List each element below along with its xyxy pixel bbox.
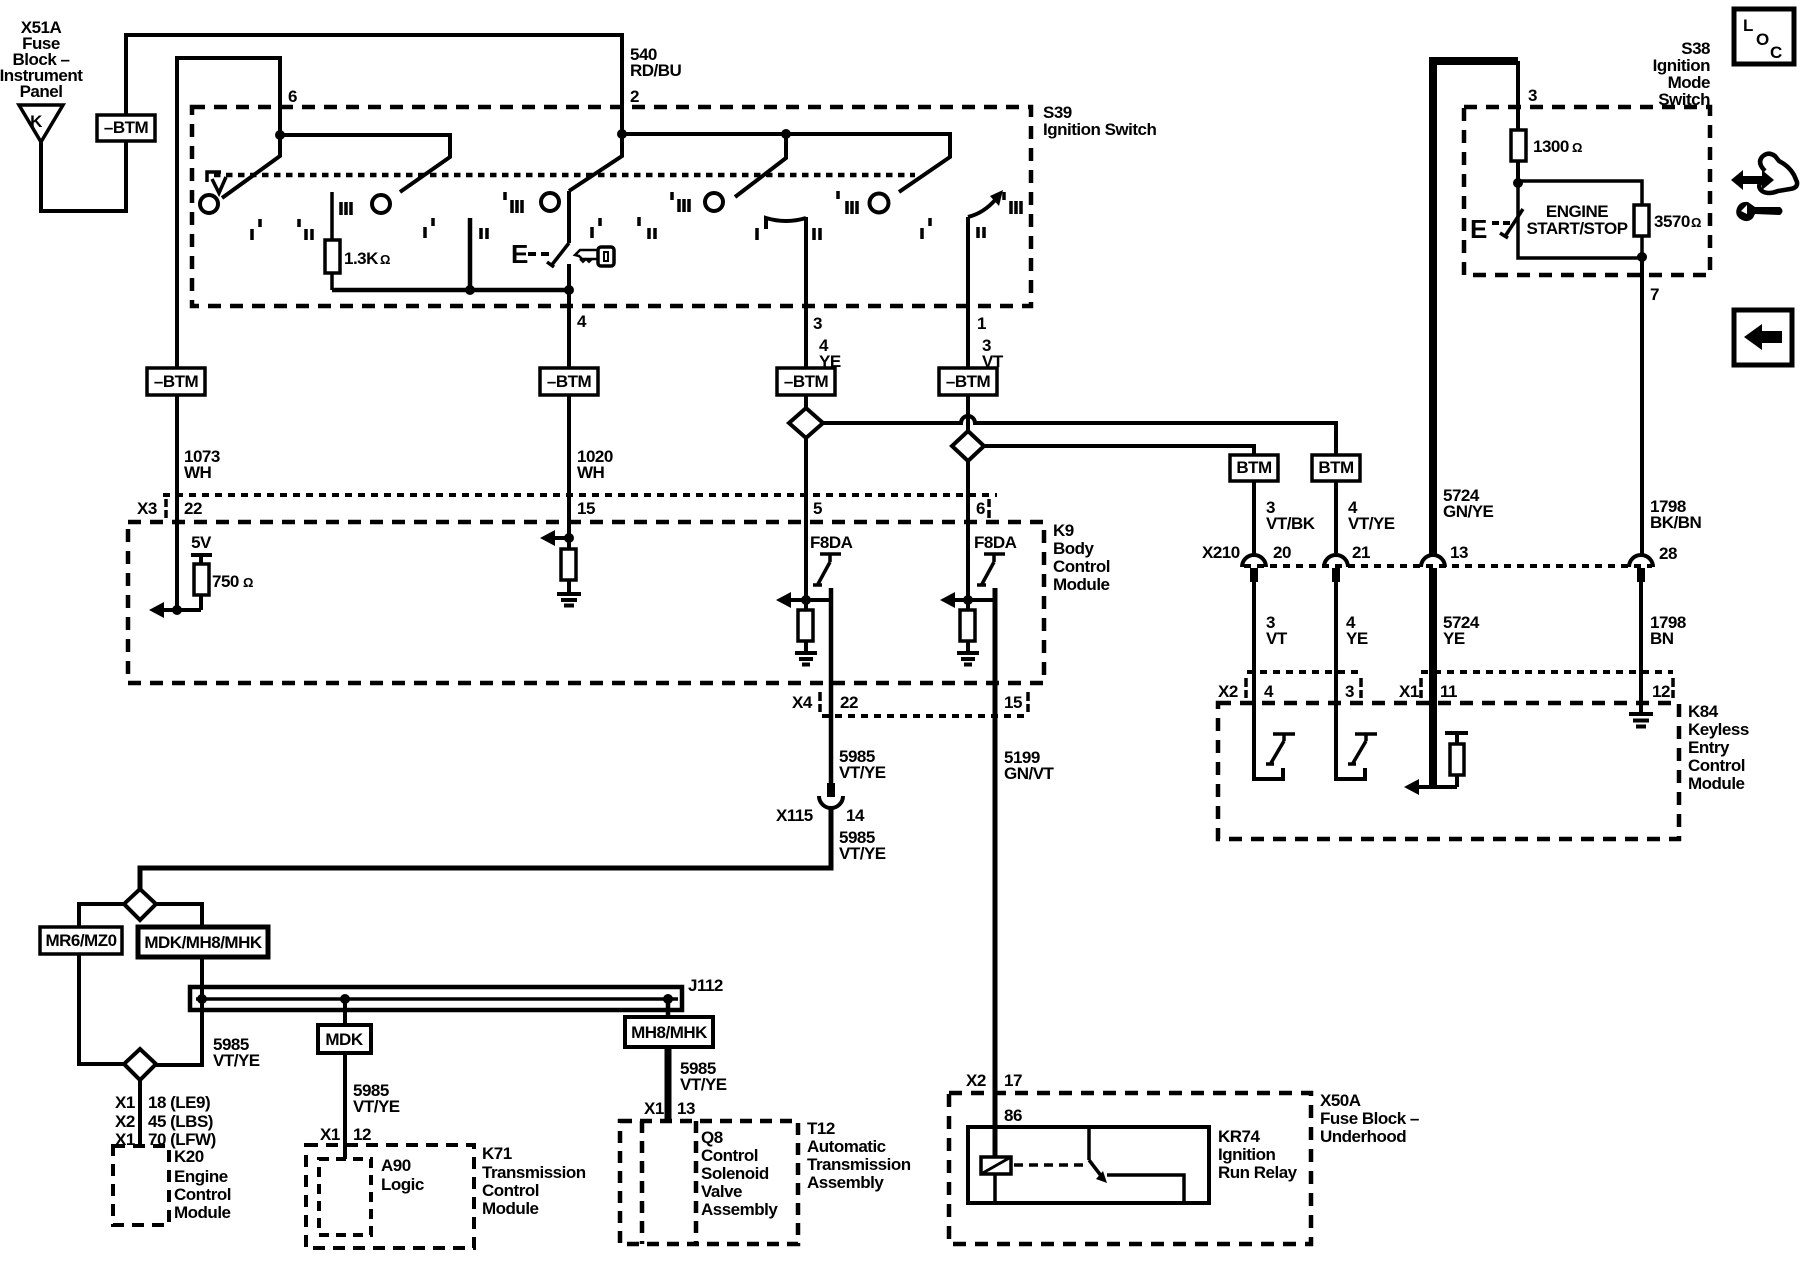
wire 5724 GN/YE trunk — [1433, 61, 1518, 556]
svg-text:A90: A90 — [381, 1156, 411, 1175]
svg-text:KR74: KR74 — [1218, 1127, 1261, 1146]
logic block A90 box — [319, 1159, 371, 1235]
wire label 5985 VT/YE left — [213, 1035, 260, 1070]
relay coil — [981, 1157, 1011, 1174]
wire label 540 RD/BU pin 2 — [630, 45, 682, 106]
svg-text:–BTM: –BTM — [104, 118, 149, 137]
svg-text:6: 6 — [288, 87, 297, 106]
svg-text:Fuse Block –: Fuse Block – — [1320, 1109, 1419, 1128]
option box MDK — [318, 1025, 371, 1053]
label T12 Automatic Transmission Assembly — [807, 1119, 911, 1192]
svg-text:Underhood: Underhood — [1320, 1127, 1406, 1146]
wire pin5 internal arrow — [790, 598, 831, 602]
option box MDK/MH8/MHK — [138, 927, 268, 957]
svg-text:15: 15 — [577, 499, 595, 518]
wire MDK tap — [343, 999, 347, 1025]
relay switch contact wire — [1107, 1175, 1184, 1203]
svg-text:X210: X210 — [1202, 543, 1240, 562]
svg-text:X2: X2 — [966, 1071, 986, 1090]
svg-text:VT/YE: VT/YE — [680, 1075, 727, 1094]
svg-text:X4: X4 — [792, 693, 813, 712]
label X4 pins 22 15 — [792, 693, 1022, 712]
svg-text:Ω: Ω — [243, 575, 253, 590]
svg-text:12: 12 — [1652, 682, 1670, 701]
svg-text:T12: T12 — [807, 1119, 835, 1138]
svg-text:Valve: Valve — [701, 1182, 742, 1201]
resistor 3570 ohm — [1634, 205, 1649, 236]
svg-text:Ignition Switch: Ignition Switch — [1043, 120, 1156, 139]
wire label 5199 GN/VT — [1004, 748, 1055, 783]
wire pin15 internal with signal arrow — [554, 495, 569, 549]
resistor pin6 pulldown — [966, 600, 970, 610]
svg-text:VT/YE: VT/YE — [353, 1097, 400, 1116]
svg-text:Module: Module — [174, 1203, 231, 1222]
svg-text:3: 3 — [1345, 682, 1354, 701]
svg-text:MDK: MDK — [325, 1030, 363, 1049]
svg-text:YE: YE — [1346, 629, 1368, 648]
svg-text:X2: X2 — [115, 1112, 135, 1131]
wire blade pole4 — [735, 134, 786, 197]
wire bottom bus 1.3K to output — [332, 288, 569, 293]
svg-text:Control: Control — [1688, 756, 1745, 775]
svg-text:E: E — [1470, 214, 1487, 244]
svg-text:45 (LBS): 45 (LBS) — [148, 1112, 213, 1131]
node junction riser bus — [465, 285, 475, 295]
contact circle pole5 — [870, 194, 889, 213]
svg-text:K84: K84 — [1688, 702, 1719, 721]
ignition mode switch S38 box — [1464, 107, 1710, 275]
position marks pole3 III — [505, 192, 522, 213]
icon back arrow box — [1734, 310, 1792, 365]
svg-text:E: E — [511, 239, 528, 269]
wire label 5985 VT/YE above X115 — [839, 747, 886, 782]
wire 1798 BN — [1639, 582, 1643, 672]
svg-text:–BTM: –BTM — [946, 372, 991, 391]
svg-text:–BTM: –BTM — [154, 372, 199, 391]
svg-text:MR6/MZ0: MR6/MZ0 — [45, 931, 116, 950]
key switch E in S38 — [1470, 209, 1523, 244]
svg-text:Body: Body — [1053, 539, 1095, 558]
node junction output bus — [564, 285, 574, 295]
keyless entry control module K84 box — [1218, 703, 1679, 839]
wire 4 YE — [1334, 582, 1338, 672]
internal 5V pullup on pin 22 — [191, 533, 212, 564]
wire pin1 to diamond splice 2 — [966, 395, 970, 431]
wire MH8/MHK to Q8 — [665, 1047, 672, 1121]
svg-text:X115: X115 — [776, 806, 813, 825]
wire hat feed pole1 pin6 — [177, 58, 280, 368]
relay linkage dashed — [1014, 1163, 1086, 1167]
position marks start pole — [922, 192, 1021, 239]
fuse box -BTM (left) — [97, 115, 155, 141]
svg-text:22: 22 — [184, 499, 202, 518]
svg-text:VT/YE: VT/YE — [839, 844, 886, 863]
svg-text:22: 22 — [840, 693, 858, 712]
connector X115 inline — [776, 783, 865, 825]
wire pin3 to diamond splice — [804, 395, 808, 409]
wire from X51A to S39 pin 2 top run — [41, 35, 622, 211]
key switch blade — [547, 243, 569, 267]
svg-text:Control: Control — [482, 1181, 539, 1200]
icon data link hand — [1731, 154, 1797, 221]
svg-text:–BTM: –BTM — [784, 372, 829, 391]
svg-text:1.3K: 1.3K — [344, 249, 379, 268]
svg-text:X1: X1 — [644, 1099, 664, 1118]
wire MH8/MHK tap — [666, 999, 671, 1017]
splice diamond 1 — [789, 408, 823, 438]
body control module K9 box — [128, 522, 1044, 683]
svg-text:Transmission: Transmission — [482, 1163, 586, 1182]
wire diamond1 down to K9 pin 5 — [804, 438, 808, 600]
position marks pole4 — [592, 192, 689, 239]
node junction pin6 bus — [275, 130, 285, 140]
node junction pin2 — [617, 129, 627, 139]
svg-text:GN/VT: GN/VT — [1004, 764, 1055, 783]
wire 1798 BK/BN from S38 pin7 — [1640, 258, 1644, 556]
svg-text:X3: X3 — [137, 499, 157, 518]
svg-text:28: 28 — [1659, 544, 1677, 563]
resistor 1.3K leg wire — [330, 192, 334, 290]
wire 5724 YE — [1429, 582, 1437, 672]
wire contact II riser pole3 — [468, 218, 473, 290]
svg-text:Automatic: Automatic — [807, 1137, 886, 1156]
label X51A Fuse Block - Instrument Panel — [0, 18, 83, 101]
svg-text:Assembly: Assembly — [807, 1173, 884, 1192]
labels X2 4 3 X1 11 12 — [1218, 682, 1670, 701]
svg-text:K71: K71 — [482, 1144, 512, 1163]
relay KR74 box — [968, 1127, 1209, 1203]
svg-text:Control: Control — [174, 1185, 231, 1204]
svg-text:2: 2 — [630, 87, 639, 106]
svg-text:F8DA: F8DA — [810, 533, 853, 552]
svg-text:Q8: Q8 — [701, 1128, 723, 1147]
svg-text:X1: X1 — [320, 1125, 340, 1144]
wire 1020 WH — [567, 395, 571, 495]
fuse box -BTM 1 — [147, 368, 205, 395]
key icon — [575, 247, 614, 266]
node junction bus pole4 — [781, 129, 791, 139]
wire diamond2 branch to BTM right 1 — [984, 446, 1254, 455]
svg-text:5: 5 — [813, 499, 822, 518]
fuse box BTM right 1 — [1230, 455, 1278, 481]
icon LOC box — [1734, 9, 1794, 64]
wire 3 VT — [1252, 582, 1256, 672]
svg-text:Ω: Ω — [380, 252, 390, 267]
svg-text:Control: Control — [1053, 557, 1110, 576]
svg-text:VT/YE: VT/YE — [1348, 514, 1395, 533]
wire 5985 run to lower left — [140, 808, 831, 889]
wire key pole common — [567, 191, 571, 243]
svg-text:BTM: BTM — [1236, 458, 1272, 477]
ground internal pin5 — [795, 641, 817, 665]
svg-text:VT/BK: VT/BK — [1266, 514, 1316, 533]
connector arc pin 20 — [1242, 555, 1266, 567]
connector X2 X1 dotted line K84 — [1247, 670, 1673, 674]
fuse box BTM right 2 — [1312, 455, 1360, 481]
wire start pole output to pin 1 — [966, 217, 970, 368]
label A90 Logic — [381, 1156, 424, 1194]
connector X210 dotted line — [1244, 564, 1652, 568]
splice diamond 2 — [952, 431, 984, 461]
label X3 and pins 22 15 5 6 — [137, 499, 985, 518]
svg-text:86: 86 — [1004, 1106, 1022, 1125]
svg-text:F8DA: F8DA — [974, 533, 1017, 552]
svg-text:13: 13 — [1450, 543, 1468, 562]
svg-text:BK/BN: BK/BN — [1650, 513, 1702, 532]
connector X4 dotted line — [822, 714, 1030, 718]
svg-text:Entry: Entry — [1688, 738, 1730, 757]
svg-text:Solenoid: Solenoid — [701, 1164, 769, 1183]
svg-text:3: 3 — [1528, 86, 1537, 105]
svg-text:K9: K9 — [1053, 521, 1074, 540]
splice diamond lower — [124, 1049, 156, 1080]
svg-text:L: L — [1743, 16, 1753, 35]
svg-text:K: K — [30, 112, 43, 131]
bus J112 — [190, 976, 723, 1010]
svg-text:Logic: Logic — [381, 1175, 424, 1194]
position marks pole3 II bars — [481, 228, 487, 239]
svg-text:X2: X2 — [1218, 682, 1238, 701]
svg-text:12: 12 — [353, 1125, 371, 1144]
svg-text:Run Relay: Run Relay — [1218, 1163, 1298, 1182]
option box MR6/MZ0 — [40, 927, 122, 954]
svg-text:X1: X1 — [115, 1093, 135, 1112]
wire 4 VT/YE — [1334, 481, 1338, 556]
label K71 Transmission Control Module — [482, 1144, 586, 1218]
wire 3 VT/BK — [1252, 481, 1256, 556]
contact circle pole2 — [372, 195, 390, 213]
wire resistor to engine box — [1516, 161, 1520, 183]
fuse box -BTM 4 — [939, 368, 997, 395]
ignition switch S39 module box — [192, 107, 1031, 306]
fuse box -BTM 3 — [777, 368, 835, 395]
svg-text:Panel: Panel — [20, 82, 63, 101]
wire coil feed — [993, 1093, 998, 1157]
svg-text:18 (LE9): 18 (LE9) — [148, 1093, 210, 1112]
svg-text:MH8/MHK: MH8/MHK — [631, 1023, 708, 1042]
svg-text:Keyless: Keyless — [1688, 720, 1749, 739]
fuse block underhood X50A box — [949, 1093, 1311, 1244]
svg-text:O: O — [1756, 30, 1769, 49]
arc start pole contact with spring arrow — [968, 199, 996, 217]
wire pin3 drop — [1516, 61, 1520, 130]
svg-text:X50A: X50A — [1320, 1091, 1361, 1110]
wire F8DA contact down to X4 pin 15 wire 5199 — [993, 588, 998, 1093]
wire bus pole1-2 with end bend blade2 — [280, 135, 450, 192]
labels X2 17 at X50A — [966, 1071, 1022, 1090]
accessory arrow mark pole1 — [207, 172, 226, 193]
svg-text:20: 20 — [1273, 543, 1291, 562]
wire diamond2 down to K9 pin 6 — [966, 461, 970, 600]
label S38 Ignition Mode Switch — [1653, 39, 1710, 109]
label K84 Keyless Entry Control Module — [1688, 702, 1749, 793]
wire right branch to MDK/MH8/MHK — [156, 904, 202, 1065]
svg-text:750: 750 — [212, 572, 239, 591]
ground internal pin15 — [557, 580, 581, 606]
svg-text:MDK/MH8/MHK: MDK/MH8/MHK — [144, 933, 262, 952]
svg-text:6: 6 — [976, 499, 985, 518]
svg-text:3: 3 — [813, 314, 822, 333]
transmission control module K71 box — [306, 1145, 474, 1248]
contact circle pole3 key — [541, 193, 559, 211]
switch F8DA on pin 5 — [810, 533, 853, 585]
label K20 Engine Control Module — [174, 1147, 231, 1222]
wire label 5985 VT/YE below X115 — [839, 828, 886, 863]
wire pin11 thick into K84 — [1429, 672, 1437, 787]
position marks pole3 I — [425, 218, 433, 238]
contact circle pole4 — [705, 193, 723, 211]
svg-text:3570: 3570 — [1654, 212, 1690, 231]
svg-text:Ignition: Ignition — [1218, 1145, 1275, 1164]
svg-text:Control: Control — [701, 1146, 758, 1165]
engine control module K20 box — [113, 1146, 169, 1225]
fuse box -BTM 2 — [540, 368, 598, 395]
svg-text:Assembly: Assembly — [701, 1200, 778, 1219]
wire diamond1 branch to BTM right 2 with hop over — [823, 416, 1336, 455]
wire run pole output to pin 3 — [804, 217, 808, 368]
svg-text:WH: WH — [184, 463, 212, 482]
svg-text:15: 15 — [1004, 693, 1022, 712]
wire F8DA contact down to X4 pin 22 — [829, 588, 834, 783]
resistor pin15 pulldown — [561, 549, 576, 580]
svg-text:BTM: BTM — [1318, 458, 1354, 477]
svg-text:Transmission: Transmission — [807, 1155, 911, 1174]
svg-text:VT/YE: VT/YE — [213, 1051, 260, 1070]
svg-text:Ω: Ω — [1691, 215, 1701, 230]
svg-text:1: 1 — [977, 314, 986, 333]
svg-text:Module: Module — [1053, 575, 1110, 594]
ground internal pin6 — [957, 641, 979, 665]
svg-text:J112: J112 — [688, 976, 723, 995]
svg-text:YE: YE — [1443, 629, 1465, 648]
svg-text:–BTM: –BTM — [547, 372, 592, 391]
mechanical linkage dotted line — [214, 173, 915, 178]
wire pin4 into K84 with switch — [1254, 672, 1283, 779]
wire coil to box bottom — [993, 1174, 997, 1203]
wire blade pole1 — [222, 135, 280, 198]
arc pole run contact — [766, 218, 806, 229]
svg-text:11: 11 — [1440, 682, 1457, 701]
wire 1073 WH — [175, 395, 179, 495]
labels X1 18 LE9 X2 45 LBS X1 70 LFW — [115, 1093, 216, 1149]
svg-text:5V: 5V — [191, 533, 212, 552]
label K9 Body Control Module — [1053, 521, 1110, 594]
label X210 and pins 20 21 13 28 — [1202, 543, 1677, 563]
svg-text:WH: WH — [577, 463, 605, 482]
label X50A Fuse Block Underhood — [1320, 1091, 1419, 1146]
wire pin6 internal arrow — [954, 598, 995, 602]
wire main bus pin2 with end bend blade5 — [622, 134, 950, 192]
wire pin12 ground in K84 — [1639, 672, 1643, 714]
svg-text:C: C — [1770, 43, 1782, 62]
relay switch — [1087, 1127, 1091, 1160]
svg-text:Module: Module — [1688, 774, 1745, 793]
svg-text:GN/YE: GN/YE — [1443, 502, 1494, 521]
svg-text:VT/YE: VT/YE — [839, 763, 886, 782]
svg-text:13: 13 — [677, 1099, 695, 1118]
connector arc pin 21 — [1324, 555, 1348, 567]
wire diamond lower to K20 — [138, 1080, 142, 1147]
automatic transmission assembly T12 box — [620, 1121, 798, 1244]
svg-text:VT: VT — [1266, 629, 1288, 648]
splice diamond MR6 MDK — [124, 889, 156, 920]
svg-text:Ω: Ω — [1572, 140, 1582, 155]
internal arrow and resistor pin11 — [1418, 775, 1457, 787]
wire 540 drop pin2 — [620, 35, 624, 134]
svg-text:X1: X1 — [1399, 682, 1419, 701]
wire pin3 into K84 with switch — [1336, 672, 1365, 779]
svg-text:RD/BU: RD/BU — [630, 61, 682, 80]
svg-text:17: 17 — [1004, 1071, 1022, 1090]
wire MDK to A90 — [343, 1053, 347, 1159]
svg-text:BN: BN — [1650, 629, 1674, 648]
connector X51A triangle K — [19, 105, 63, 142]
svg-text:1300: 1300 — [1533, 137, 1569, 156]
pin 1 label and wire 3 VT — [977, 314, 1004, 371]
position mark pole2 III — [341, 202, 351, 215]
node junction pin7 — [1637, 252, 1647, 262]
resistor 1.3K — [325, 240, 340, 273]
svg-text:21: 21 — [1352, 543, 1370, 562]
control solenoid valve assembly Q8 partition — [642, 1121, 696, 1244]
position marks pole2 I II — [252, 219, 312, 240]
connector X3 dotted line — [163, 493, 997, 497]
resistor 750 ohm — [194, 564, 209, 595]
wire blade key pole — [569, 134, 622, 191]
wire key pole output to pin 4 — [567, 264, 571, 368]
connector arc pin 28 — [1629, 555, 1653, 567]
svg-text:4: 4 — [1264, 682, 1274, 701]
position marks run pole — [757, 191, 857, 240]
svg-text:7: 7 — [1650, 285, 1659, 304]
pin 3 label and wire 4 YE — [813, 314, 841, 371]
engine start/stop box — [1518, 181, 1642, 258]
label KR74 Ignition Run Relay — [1218, 1127, 1298, 1182]
svg-text:4: 4 — [577, 312, 587, 331]
svg-text:K20: K20 — [174, 1147, 204, 1166]
svg-text:Engine: Engine — [174, 1167, 228, 1186]
wire pin22 internal with signal arrow — [163, 495, 201, 610]
label Q8 Control Solenoid Valve Assembly — [701, 1128, 778, 1219]
option box MH8/MHK — [625, 1017, 713, 1047]
svg-text:14: 14 — [846, 806, 865, 825]
ground K84 — [1629, 714, 1653, 727]
svg-text:START/STOP: START/STOP — [1526, 219, 1627, 238]
wire left branch to MR6/MZ0 — [79, 904, 124, 1064]
label S39 Ignition Switch — [1043, 103, 1156, 139]
contact circle pole1 — [200, 195, 218, 213]
svg-text:Switch: Switch — [1658, 90, 1710, 109]
connector arc pin 13 — [1421, 555, 1445, 567]
resistor pin5 pulldown — [804, 600, 808, 610]
resistor 1300 ohm — [1511, 130, 1526, 161]
svg-text:Module: Module — [482, 1199, 539, 1218]
switch F8DA on pin 6 — [974, 533, 1017, 585]
